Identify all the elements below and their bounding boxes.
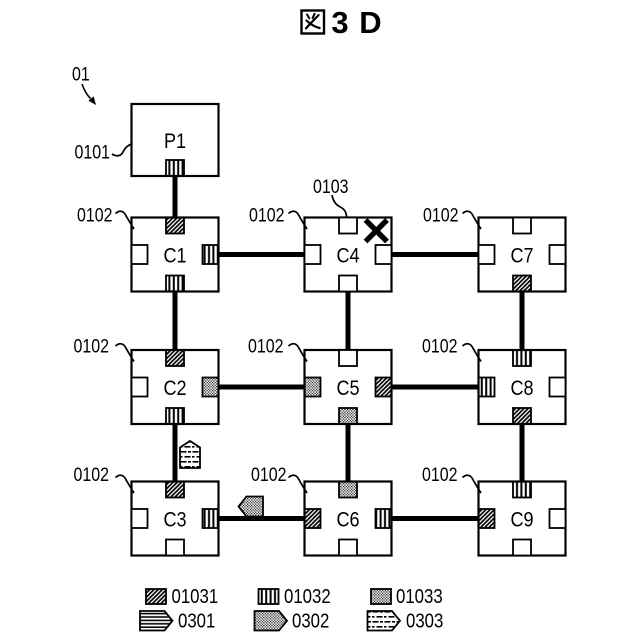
svg-text:01031: 01031 — [172, 585, 219, 608]
svg-text:P1: P1 — [164, 130, 186, 154]
port C3-top (diag) — [166, 482, 184, 498]
wire C2-C3 — [173, 423, 178, 483]
port C2-left (white) — [132, 378, 148, 397]
wire C5-C8 — [391, 385, 480, 390]
svg-text:01: 01 — [72, 63, 90, 85]
svg-text:0102: 0102 — [74, 335, 109, 357]
node C1 box — [132, 218, 219, 292]
wire C1-C4 — [218, 252, 306, 257]
svg-text:0102: 0102 — [248, 335, 283, 357]
port C5-bottom (dots) — [339, 408, 357, 424]
port C8-right (white) — [550, 378, 566, 397]
port C2-top (diag) — [166, 350, 184, 366]
node C9 box — [479, 482, 566, 556]
wire C8-C9 — [520, 423, 525, 483]
port C6-bottom (white) — [339, 540, 357, 556]
node C7 box — [479, 218, 566, 292]
svg-text:C6: C6 — [336, 508, 359, 532]
wire C1-C2 — [173, 291, 178, 352]
node P1 box — [132, 104, 219, 176]
svg-text:0301: 0301 — [178, 609, 215, 632]
marker 0303 pentagon (up-pointing, dashed fill) near wire C2-C3 — [180, 441, 200, 468]
legend swatch 0303 (pentagon, dashed) — [368, 611, 401, 631]
port C3-right (vert) — [203, 509, 219, 528]
port C9-top (vert) — [513, 482, 531, 498]
svg-text:C4: C4 — [336, 244, 359, 268]
svg-text:0102: 0102 — [251, 464, 286, 486]
svg-text:0102: 0102 — [74, 464, 109, 486]
svg-text:0102: 0102 — [422, 335, 457, 357]
svg-text:3: 3 — [331, 5, 348, 40]
legend swatch 01032 (vertical lines) — [259, 589, 279, 604]
port C9-bottom (white) — [513, 540, 531, 556]
marker 0302 pentagon (left-pointing, dotted fill) on wire C3-C6 — [239, 497, 264, 517]
svg-text:01032: 01032 — [284, 585, 331, 608]
svg-text:C5: C5 — [336, 377, 359, 401]
legend swatch 0301 (pentagon, horizontal lines) — [140, 611, 173, 631]
svg-text:0102: 0102 — [249, 204, 284, 226]
port C3-left (white) — [132, 509, 148, 528]
port P1-bottom (vert) — [166, 160, 184, 176]
title kanji 図 (drawn) — [302, 11, 325, 34]
port C7-top (white) — [513, 218, 531, 234]
port C9-left (diag) — [479, 509, 495, 528]
node C4 box — [305, 218, 392, 292]
port C7-right (white) — [550, 245, 566, 264]
port C5-right (diag) — [376, 378, 392, 397]
port C1-left (white) — [132, 245, 148, 264]
port C1-bottom (vert) — [166, 276, 184, 292]
port C4-left (white) — [305, 245, 321, 264]
svg-text:C1: C1 — [163, 244, 186, 268]
svg-text:0302: 0302 — [292, 609, 329, 632]
svg-text:D: D — [359, 5, 381, 40]
svg-text:0101: 0101 — [75, 141, 110, 163]
legend swatch 01031 (diagonal hatch) — [146, 589, 166, 604]
port C7-bottom (diag) — [513, 276, 531, 292]
port C1-top (diag) — [166, 218, 184, 234]
wire C6-C9 — [392, 516, 480, 521]
port C5-left (dots) — [305, 378, 321, 397]
wire C7-C8 — [520, 291, 525, 352]
legend swatch 01033 (dotted) — [371, 589, 391, 604]
port C4-right (white) — [376, 245, 392, 264]
port C6-left (diag) — [305, 509, 321, 528]
wire C5-C6 — [346, 423, 351, 483]
wire C2-C5 — [218, 385, 306, 390]
port C4-top (white) — [339, 218, 357, 234]
node C5 box — [305, 350, 392, 424]
port C4-bottom (white) — [339, 276, 357, 292]
node C8 box — [479, 350, 566, 424]
svg-text:0102: 0102 — [422, 464, 457, 486]
svg-text:0303: 0303 — [406, 609, 443, 632]
port C3-bottom (white) — [166, 540, 184, 556]
port C6-right (vert) — [376, 509, 392, 528]
svg-text:0102: 0102 — [77, 204, 112, 226]
port C8-top (vert) — [513, 350, 531, 366]
svg-text:C8: C8 — [510, 377, 533, 401]
svg-text:C9: C9 — [510, 508, 533, 532]
wire C4-C7 — [391, 252, 480, 257]
node C3 box — [132, 482, 219, 556]
svg-text:C7: C7 — [510, 244, 533, 268]
port C5-top (white) — [339, 350, 357, 366]
wire C4-C5 — [346, 291, 351, 352]
node C2 box — [132, 350, 219, 424]
port C8-bottom (diag) — [513, 408, 531, 424]
port C1-right (vert) — [203, 245, 219, 264]
node C6 box — [305, 482, 392, 556]
wire P1-C1 — [173, 175, 178, 220]
svg-text:C2: C2 — [163, 377, 186, 401]
svg-text:01033: 01033 — [396, 585, 443, 608]
failure mark X on C4 — [366, 220, 388, 242]
svg-text:0103: 0103 — [313, 176, 348, 198]
svg-text:0102: 0102 — [423, 204, 458, 226]
legend swatch 0302 (pentagon, dotted) — [255, 611, 288, 631]
port C2-right (dots) — [203, 378, 219, 397]
port C9-right (white) — [550, 509, 566, 528]
port C8-left (vert) — [479, 378, 495, 397]
svg-text:C3: C3 — [163, 508, 186, 532]
port C7-left (white) — [479, 245, 495, 264]
wire C3-C6 — [218, 516, 306, 521]
port C6-top (dots) — [339, 482, 357, 498]
port C2-bottom (vert) — [166, 408, 184, 424]
